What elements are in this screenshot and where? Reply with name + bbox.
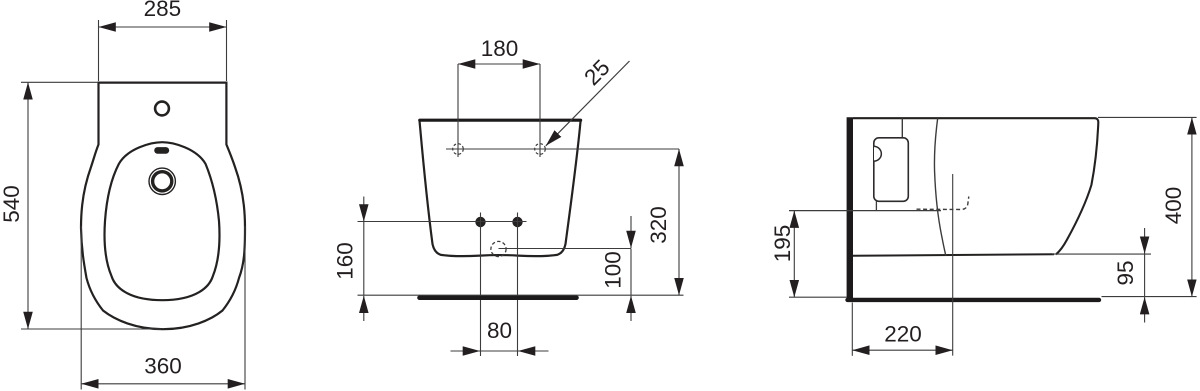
overflow slot <box>154 147 169 154</box>
dimension 285 extension lines <box>98 20 100 81</box>
fixing holes horizontal centerline <box>446 148 679 150</box>
floor shadow bar (thick horizontal) <box>848 298 1100 302</box>
hidden trap dashed line <box>917 197 969 210</box>
svg-text:285: 285 <box>144 0 182 21</box>
svg-text:400: 400 <box>1161 187 1186 225</box>
mounting plate (thick bar) <box>420 295 577 300</box>
dimension 540 line <box>27 82 29 329</box>
wall mounting line (thick vertical bar) <box>847 117 853 301</box>
supply hole vertical centerlines / 80 extension lines <box>480 213 482 357</box>
drain centerline <box>952 174 954 356</box>
svg-text:160: 160 <box>332 242 357 280</box>
supply hole right (filled) <box>512 217 522 227</box>
tap hole projection line <box>901 118 903 137</box>
drain outer ring <box>149 168 175 194</box>
supply hole left (filled) <box>475 217 485 227</box>
dimension 95 extension <box>1052 253 1151 255</box>
svg-text:95: 95 <box>1113 260 1138 285</box>
supply holes horizontal centerline <box>358 221 527 223</box>
svg-text:320: 320 <box>646 206 671 244</box>
svg-text:195: 195 <box>770 225 795 263</box>
dimension 400 line <box>1191 117 1193 296</box>
faucet hole (top view) <box>155 102 169 116</box>
drain inner ring <box>153 172 172 191</box>
fixing hole right (dashed circle) <box>535 144 546 155</box>
dimension 285 line <box>99 26 227 28</box>
dimension 195 line <box>793 211 795 298</box>
svg-text:80: 80 <box>487 318 512 343</box>
dimension 180 extension lines through holes <box>457 64 459 157</box>
bottom reference line <box>358 294 684 296</box>
dimension 160 line <box>363 222 365 295</box>
dimension 540 extension lines <box>21 81 98 83</box>
bottom right extension line <box>1102 296 1197 298</box>
dimension 100 line <box>630 249 632 296</box>
dimension 360 extension lines <box>80 226 82 390</box>
svg-text:540: 540 <box>0 185 24 223</box>
dimension 220 line <box>852 349 952 351</box>
dimension 80 line <box>451 350 481 352</box>
bidet body outline (top view) <box>81 83 245 330</box>
bowl inner front profile <box>934 118 945 256</box>
dimension 180 line <box>458 63 540 65</box>
drain centerline extension to 100 dim <box>499 248 632 250</box>
bidet body outline (front view) <box>420 121 581 257</box>
rim inner oval (egg shaped) <box>105 142 220 300</box>
svg-text:100: 100 <box>601 251 626 289</box>
dimension 95 line <box>1144 254 1146 297</box>
notch semicircle on recess <box>874 146 881 161</box>
svg-text:180: 180 <box>481 36 519 61</box>
tap recess rounded rectangle <box>874 138 909 202</box>
dimension 320 line <box>678 149 680 295</box>
drain hidden circle (dashed) <box>491 241 506 256</box>
bowl bottom line (side view) <box>853 254 1054 256</box>
dimension 195 bottom extension <box>789 296 847 298</box>
dimension 220 left extension <box>851 303 853 356</box>
svg-text:220: 220 <box>884 322 922 347</box>
deck line (195 top extension) <box>789 210 941 212</box>
body top edge and front curve (side view) <box>853 118 1098 254</box>
leader line for 25 <box>546 61 630 146</box>
svg-text:360: 360 <box>144 354 182 379</box>
dimension 400 top extension <box>1098 116 1197 118</box>
recess to deck line <box>875 201 877 210</box>
top rim thick edge (front view) <box>420 119 581 122</box>
dimension 360 line <box>81 383 245 385</box>
fixing hole left (dashed circle) <box>453 144 464 155</box>
